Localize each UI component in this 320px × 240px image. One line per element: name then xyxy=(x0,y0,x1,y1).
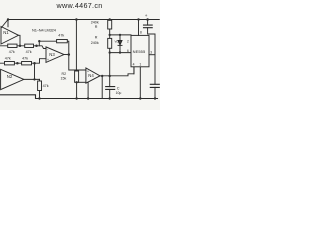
svg-text:1: 1 xyxy=(139,63,141,67)
svg-text:+: + xyxy=(47,58,49,62)
svg-text:15k: 15k xyxy=(61,76,67,80)
svg-text:R: R xyxy=(95,25,98,29)
svg-text:+: + xyxy=(145,13,148,18)
svg-text:www.4467.cn: www.4467.cn xyxy=(56,1,103,10)
svg-text:R: R xyxy=(95,36,98,40)
svg-text:+: + xyxy=(87,69,89,73)
svg-text:47k: 47k xyxy=(22,56,28,60)
svg-text:N4: N4 xyxy=(88,73,94,78)
svg-text:240k: 240k xyxy=(91,41,99,45)
svg-text:N1: N1 xyxy=(3,30,9,35)
svg-text:N2: N2 xyxy=(7,74,13,79)
svg-text:-: - xyxy=(47,48,48,52)
svg-text:C: C xyxy=(117,86,120,90)
svg-text:3: 3 xyxy=(150,51,152,55)
svg-text:8: 8 xyxy=(140,31,142,35)
svg-text:47k: 47k xyxy=(26,50,32,54)
svg-text:N1–N4 LM324: N1–N4 LM324 xyxy=(32,27,57,32)
svg-text:6: 6 xyxy=(127,49,129,53)
svg-text:2: 2 xyxy=(127,40,129,44)
svg-text:47k: 47k xyxy=(58,33,64,37)
svg-text:10μ: 10μ xyxy=(116,91,122,95)
svg-text:-: - xyxy=(87,80,88,84)
svg-text:47k: 47k xyxy=(5,56,11,60)
svg-text:240k: 240k xyxy=(91,21,99,25)
svg-text:N3: N3 xyxy=(49,52,55,57)
svg-text:4: 4 xyxy=(133,63,135,67)
svg-text:47k: 47k xyxy=(43,84,49,88)
svg-text:NE555: NE555 xyxy=(133,49,146,54)
svg-text:47k: 47k xyxy=(9,50,15,54)
